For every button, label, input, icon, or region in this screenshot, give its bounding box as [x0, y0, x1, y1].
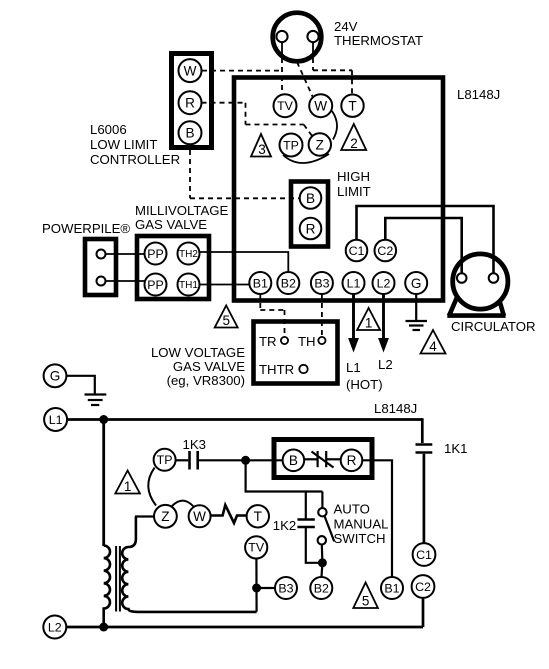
triangle 2	[341, 124, 366, 151]
label LOW VOLTAGE GAS VALVE	[151, 345, 245, 388]
terminal Z (upper)	[309, 133, 331, 155]
transformer core	[116, 546, 120, 612]
wire arc W to Z (upper)	[332, 111, 337, 140]
B-R relay box	[274, 440, 372, 478]
label THTR and terminal	[259, 362, 308, 377]
svg-text:Z: Z	[316, 137, 324, 152]
label AUTO MANUAL SWITCH	[334, 502, 389, 547]
wire junction down and across to switch	[246, 460, 323, 491]
thermostat circle	[273, 13, 322, 62]
label TH and terminal	[298, 334, 326, 349]
wire dashed B3 to TH	[321, 294, 323, 337]
svg-text:POWERPILE®: POWERPILE®	[42, 221, 130, 236]
svg-text:MILLIVOLTAGE: MILLIVOLTAGE	[135, 203, 229, 218]
terminal B1 (upper)	[249, 272, 271, 294]
svg-text:TH1: TH1	[179, 280, 198, 291]
triangle 1 (lower)	[115, 471, 140, 495]
transformer primary coil	[104, 546, 110, 628]
terminal C1 (upper)	[346, 240, 368, 262]
terminal T (lower)	[247, 505, 269, 527]
terminal TV (lower)	[245, 536, 267, 558]
svg-text:C1: C1	[416, 548, 432, 562]
svg-text:SWITCH: SWITCH	[334, 531, 386, 546]
high limit box	[291, 182, 328, 247]
relay contact 1K3	[176, 451, 246, 470]
svg-text:TV: TV	[277, 99, 294, 113]
relay contact 1K1	[416, 445, 433, 453]
wire arc TP to Z bottom (upper)	[283, 154, 329, 163]
terminal L2 (lower)	[43, 616, 66, 639]
svg-text:B1: B1	[253, 276, 268, 290]
wire arc Z to W (lower)	[172, 501, 194, 507]
svg-text:Z: Z	[161, 509, 169, 524]
wire dashed B(L6006) to HIGH LIMIT B	[190, 144, 300, 198]
resistor W to T	[211, 505, 247, 523]
ground symbol at G (upper)	[406, 294, 428, 330]
svg-text:B: B	[306, 191, 315, 206]
svg-text:THTR: THTR	[259, 362, 294, 377]
terminal TP (lower)	[154, 449, 176, 471]
wire dashed R(L6006) to Z	[202, 103, 313, 137]
terminal G (left, with ground)	[44, 364, 67, 387]
terminal TH2	[178, 243, 200, 265]
terminal B2 (upper)	[277, 272, 299, 294]
label L6006 LOW LIMIT CONTROLLER	[90, 122, 180, 167]
svg-text:T: T	[254, 509, 262, 524]
wire dashed W(L6006) to thermostat-left and TV	[202, 49, 282, 94]
terminal B2 (lower)	[310, 577, 332, 599]
terminal W (L6006)	[179, 59, 202, 82]
svg-text:B: B	[289, 453, 298, 468]
svg-text:G: G	[50, 369, 61, 384]
terminal L2 (upper)	[373, 272, 395, 294]
wire junction dot to B2	[320, 563, 323, 577]
powerpile terminal bottom	[97, 277, 106, 286]
label CIRCULATOR	[451, 319, 536, 334]
wire C2 to bottom rail	[422, 598, 425, 627]
terminal C2 (upper)	[375, 240, 397, 262]
wire TH2 to B2	[200, 252, 289, 272]
terminal R (high limit)	[300, 218, 322, 240]
svg-text:1K3: 1K3	[183, 437, 206, 452]
svg-text:T: T	[348, 98, 356, 113]
terminal PP top	[145, 243, 167, 265]
wire L2 bottom rail	[66, 626, 423, 629]
terminal W (upper)	[309, 94, 332, 117]
wire L1 top rail	[67, 418, 422, 421]
svg-text:L2: L2	[378, 357, 393, 372]
svg-text:LOW VOLTAGE: LOW VOLTAGE	[151, 345, 245, 360]
svg-text:MANUAL: MANUAL	[334, 516, 389, 531]
label MILLIVOLTAGE GAS VALVE	[135, 203, 229, 232]
svg-text:L8148J: L8148J	[374, 401, 417, 416]
svg-text:CONTROLLER: CONTROLLER	[90, 152, 180, 167]
svg-text:LOW LIMIT: LOW LIMIT	[90, 137, 157, 152]
svg-text:LIMIT: LIMIT	[337, 184, 371, 199]
circulator motor body	[447, 254, 508, 316]
low voltage gas valve box	[254, 322, 338, 384]
ground symbol (left G)	[66, 376, 106, 405]
svg-text:GAS VALVE: GAS VALVE	[135, 217, 207, 232]
terminal T (upper)	[341, 95, 363, 117]
terminal PP bottom	[145, 274, 167, 296]
terminal Z (lower)	[154, 505, 177, 528]
svg-text:L8148J: L8148J	[457, 87, 500, 102]
wire L2 arrow	[378, 294, 389, 353]
triangle 1 (upper)	[357, 308, 380, 331]
label L8148J (upper)	[457, 87, 500, 102]
svg-text:4: 4	[429, 339, 437, 354]
svg-text:PP: PP	[147, 247, 164, 261]
wire dashed thermostat-bottom diagonal to W	[297, 62, 313, 98]
label 24V THERMOSTAT	[334, 19, 423, 48]
svg-text:C2: C2	[415, 580, 431, 594]
terminal TV (upper)	[274, 94, 297, 117]
svg-text:L6006: L6006	[90, 122, 127, 137]
svg-text:L1: L1	[347, 276, 361, 290]
wire TV down to junction	[255, 559, 257, 612]
svg-text:TP: TP	[157, 453, 173, 467]
terminal B (L6006)	[179, 121, 202, 144]
svg-text:B3: B3	[278, 581, 293, 595]
label POWERPILE	[42, 221, 130, 236]
NC contact between B and R	[304, 451, 341, 468]
wire arc TP to Z (lower)	[148, 468, 156, 506]
svg-text:TH2: TH2	[179, 249, 198, 260]
svg-text:B2: B2	[314, 581, 329, 595]
svg-text:B: B	[185, 126, 194, 141]
svg-text:TH: TH	[298, 334, 316, 349]
terminal C1 (lower)	[413, 543, 436, 566]
terminal C2 (lower)	[412, 575, 435, 598]
label 1K1	[444, 441, 467, 456]
label TR and terminal	[259, 334, 288, 349]
svg-text:B2: B2	[281, 276, 296, 290]
svg-text:C1: C1	[349, 244, 365, 258]
svg-text:R: R	[306, 221, 316, 236]
terminal TH1	[178, 274, 200, 296]
junction dot L1 rail	[99, 415, 108, 424]
powerpile terminal top	[97, 250, 106, 259]
wire TH1 to B1	[200, 284, 250, 286]
wire dashed B1 to TR	[260, 294, 284, 337]
terminal W (lower)	[189, 505, 211, 527]
wire C2 to circulator left terminal	[385, 218, 461, 274]
svg-text:3: 3	[258, 142, 266, 157]
wire powerpile to PP bottom	[106, 280, 145, 282]
svg-text:TV: TV	[248, 541, 265, 555]
auto-manual switch	[318, 492, 335, 563]
svg-text:(HOT): (HOT)	[346, 377, 383, 392]
svg-text:L1: L1	[49, 413, 63, 427]
svg-text:1: 1	[124, 479, 132, 494]
label 1K2	[273, 518, 296, 533]
wire right rail down to 1K1	[421, 418, 424, 443]
svg-text:5: 5	[362, 594, 370, 609]
junction dot at B3	[252, 584, 261, 593]
svg-text:(eg, VR8300): (eg, VR8300)	[167, 373, 245, 388]
terminal TP (upper)	[280, 134, 303, 157]
svg-text:24V: 24V	[334, 19, 358, 34]
svg-text:R: R	[185, 95, 195, 110]
svg-text:1K2: 1K2	[273, 518, 296, 533]
svg-text:CIRCULATOR: CIRCULATOR	[451, 319, 536, 334]
svg-text:B1: B1	[384, 581, 399, 595]
junction dot L2 rail	[99, 623, 108, 632]
svg-text:THERMOSTAT: THERMOSTAT	[334, 33, 423, 48]
svg-text:5: 5	[222, 313, 230, 328]
wire dashed thermostat-right to T	[313, 49, 352, 94]
terminal B (B-R box)	[283, 450, 305, 472]
wire branch down to 1K2	[305, 492, 307, 519]
svg-text:C2: C2	[377, 244, 393, 258]
wire R to B1 (lower)	[362, 460, 392, 576]
svg-text:HIGH: HIGH	[337, 169, 370, 184]
relay contact 1K2	[297, 520, 314, 528]
junction dot above B2	[318, 558, 327, 567]
wire junction to B (B-R box)	[246, 459, 283, 461]
svg-text:GAS VALVE: GAS VALVE	[173, 359, 245, 374]
terminal B3 (upper)	[311, 272, 333, 294]
svg-text:B3: B3	[314, 276, 329, 290]
terminal B1 (lower)	[381, 577, 403, 599]
terminal L1 (lower)	[44, 408, 67, 431]
wire L1 arrow	[348, 294, 359, 353]
terminal B3 (lower)	[275, 577, 297, 599]
powerpile box	[85, 239, 116, 295]
millivoltage gas valve box	[137, 236, 209, 299]
triangle 3	[251, 134, 271, 157]
label L8148J (lower)	[374, 401, 417, 416]
svg-text:1: 1	[365, 316, 373, 331]
svg-text:AUTO: AUTO	[334, 502, 370, 517]
label L1 (HOT)	[346, 360, 383, 392]
svg-text:1K1: 1K1	[444, 441, 467, 456]
wire powerpile to PP top	[106, 253, 145, 255]
wire secondary top to Z	[135, 515, 154, 517]
svg-text:PP: PP	[147, 278, 164, 292]
svg-text:G: G	[411, 276, 422, 291]
triangle 4	[421, 330, 446, 354]
wire C1 to circulator right terminal	[357, 206, 494, 274]
circulator terminals	[457, 273, 498, 283]
svg-text:L2: L2	[48, 620, 62, 634]
svg-text:R: R	[347, 453, 357, 468]
relay box L8148J (upper)	[234, 78, 443, 301]
terminal R (L6006)	[179, 91, 202, 114]
label L2	[378, 357, 393, 372]
svg-text:2: 2	[350, 136, 358, 151]
svg-text:W: W	[184, 63, 197, 78]
terminal G (upper)	[405, 272, 427, 294]
wire 1K1 to C1	[423, 454, 426, 543]
label HIGH LIMIT	[337, 169, 371, 199]
transformer secondary coil	[122, 517, 256, 612]
L6006 controller box	[172, 54, 212, 148]
junction dot at 1K3 output	[241, 456, 250, 465]
svg-text:L1: L1	[346, 360, 361, 375]
terminal L1 (upper)	[343, 272, 365, 294]
triangle 5 (lower)	[353, 583, 378, 609]
label 1K3	[183, 437, 206, 452]
triangle 5 (upper)	[215, 306, 238, 329]
terminal R (B-R box)	[341, 450, 363, 472]
svg-text:W: W	[314, 98, 327, 113]
svg-text:W: W	[193, 509, 206, 524]
wire left rail L1-junction down to transformer	[102, 420, 105, 547]
wire 1K2 to junction dot	[306, 528, 323, 563]
wire junction to B3	[257, 587, 275, 589]
terminal B (high limit)	[300, 187, 322, 209]
svg-text:L2: L2	[377, 276, 391, 290]
svg-text:TR: TR	[259, 334, 277, 349]
svg-text:TP: TP	[283, 138, 299, 152]
